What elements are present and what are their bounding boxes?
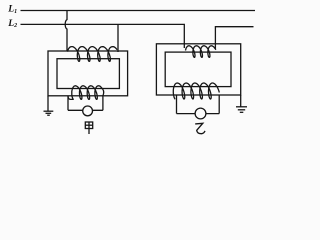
- transformer B outer core rectangle: [156, 44, 240, 95]
- wire L1 line: [21, 10, 256, 12]
- wire transformer A ground stem: [47, 96, 49, 111]
- wire L2 line with corner down to transformer B primary left lead: [21, 24, 185, 48]
- transformer B secondary coil: [173, 83, 219, 99]
- wire transformer B ground stem: [240, 95, 242, 107]
- lamp/meter circle of transformer A: [83, 106, 93, 116]
- node L1 label: [7, 4, 17, 15]
- wire transformer A secondary left lead: [67, 96, 69, 111]
- ground symbol of transformer A: [44, 111, 54, 115]
- transformer A inner core rectangle: [57, 59, 119, 89]
- transformer A primary coil: [68, 47, 118, 62]
- transformer B primary coil: [186, 46, 216, 58]
- ground symbol of transformer B: [236, 107, 247, 113]
- wire transformer B secondary right lead: [218, 95, 220, 114]
- svg-text:L1: L1: [7, 4, 17, 15]
- wire transformer A secondary right lead: [102, 96, 104, 111]
- wire from L1 to transformer A primary left with hop over L2: [65, 11, 67, 52]
- wire transformer A secondary bottom bus: [68, 109, 103, 111]
- label A (Chinese jia, drawn): [85, 122, 92, 134]
- wire transformer B primary right lead and top horizontal: [215, 27, 253, 49]
- node L2 label: [7, 18, 17, 29]
- transformer A secondary coil: [72, 86, 103, 100]
- svg-text:L2: L2: [7, 18, 17, 29]
- transformer A outer core rectangle: [48, 51, 128, 96]
- wire connector from A secondary coil left end to lead: [68, 96, 74, 99]
- lamp/meter circle of transformer B: [195, 108, 206, 119]
- wire connector from A secondary coil right end to lead: [102, 90, 105, 96]
- wire from L2 to transformer A primary right: [117, 24, 119, 52]
- transformer B inner core rectangle: [165, 52, 231, 87]
- wire transformer B secondary left lead: [176, 95, 178, 114]
- label B (Chinese yi, drawn): [195, 123, 205, 133]
- wire transformer B secondary bottom bus: [177, 113, 220, 115]
